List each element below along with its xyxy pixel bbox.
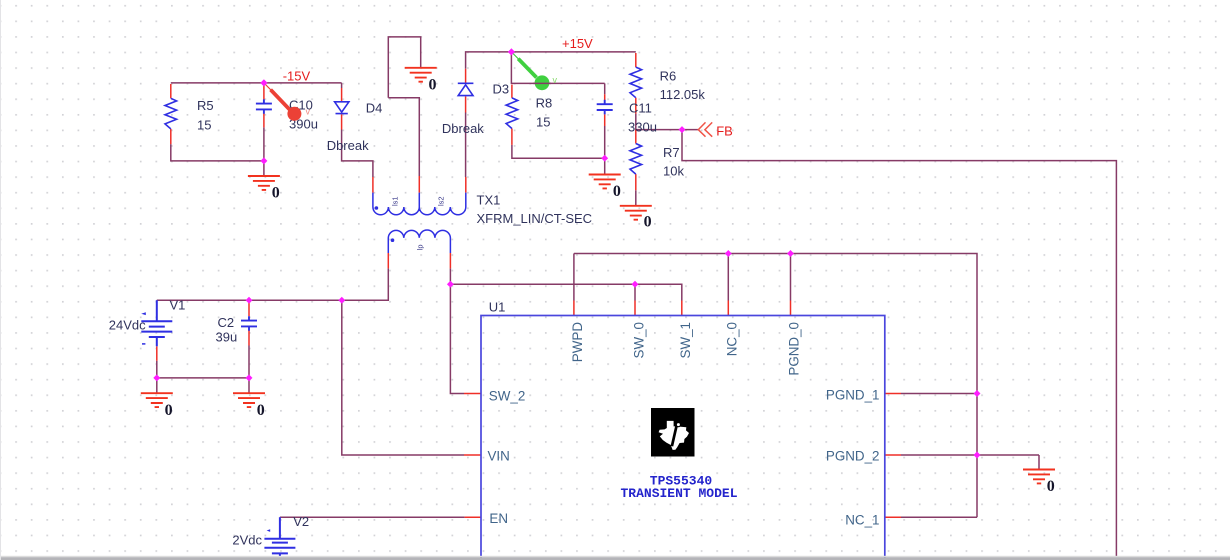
svg-text:XFRM_LIN/CT-SEC: XFRM_LIN/CT-SEC <box>477 211 593 226</box>
svg-text:15: 15 <box>536 115 550 130</box>
svg-text:0: 0 <box>1047 478 1055 495</box>
svg-text:R7: R7 <box>663 145 680 160</box>
svg-text:v: v <box>306 107 311 117</box>
svg-text:NC_0: NC_0 <box>725 322 740 356</box>
svg-text:PGND_2: PGND_2 <box>826 449 880 464</box>
svg-text:2Vdc: 2Vdc <box>232 533 262 548</box>
svg-text:SW_1: SW_1 <box>678 322 693 358</box>
svg-text:NC_1: NC_1 <box>845 513 879 528</box>
svg-text:U1: U1 <box>489 300 506 315</box>
svg-text:D3: D3 <box>493 81 510 96</box>
svg-text:ls2: ls2 <box>437 196 446 206</box>
svg-text:V2: V2 <box>293 514 309 529</box>
svg-text:FB: FB <box>716 123 733 138</box>
svg-text:D4: D4 <box>366 101 383 116</box>
svg-text:SW_0: SW_0 <box>631 322 646 358</box>
svg-text:SW_2: SW_2 <box>489 389 525 404</box>
svg-text:Dbreak: Dbreak <box>327 138 369 153</box>
svg-text:0: 0 <box>165 402 173 419</box>
svg-text:TX1: TX1 <box>477 193 501 208</box>
svg-text:R8: R8 <box>536 96 553 111</box>
svg-text:-15V: -15V <box>283 68 311 83</box>
svg-text:39u: 39u <box>216 330 238 345</box>
svg-text:0: 0 <box>429 76 437 93</box>
svg-text:VIN: VIN <box>488 449 510 464</box>
svg-text:15: 15 <box>197 118 211 133</box>
svg-text:lp: lp <box>415 244 424 250</box>
svg-text:C2: C2 <box>218 315 235 330</box>
svg-text:24Vdc: 24Vdc <box>109 318 146 333</box>
svg-text:330u: 330u <box>628 119 657 134</box>
svg-text:ls1: ls1 <box>391 196 400 206</box>
svg-text:0: 0 <box>272 185 280 202</box>
svg-text:R6: R6 <box>660 69 677 84</box>
svg-text:C11: C11 <box>629 101 652 116</box>
svg-text:0: 0 <box>644 214 652 231</box>
svg-text:EN: EN <box>489 511 508 526</box>
svg-text:R5: R5 <box>197 98 214 113</box>
svg-text:+15V: +15V <box>562 36 593 51</box>
svg-text:PGND_0: PGND_0 <box>787 322 802 376</box>
svg-text:V1: V1 <box>170 298 186 313</box>
svg-text:10k: 10k <box>663 164 684 179</box>
svg-text:Dbreak: Dbreak <box>442 121 484 136</box>
svg-text:v: v <box>553 75 558 85</box>
svg-text:0: 0 <box>613 183 621 200</box>
svg-text:PGND_1: PGND_1 <box>826 388 880 403</box>
svg-text:PWPD: PWPD <box>570 322 585 363</box>
svg-text:112.05k: 112.05k <box>660 87 706 102</box>
svg-text:TRANSIENT MODEL: TRANSIENT MODEL <box>620 486 737 501</box>
svg-text:0: 0 <box>257 402 265 419</box>
